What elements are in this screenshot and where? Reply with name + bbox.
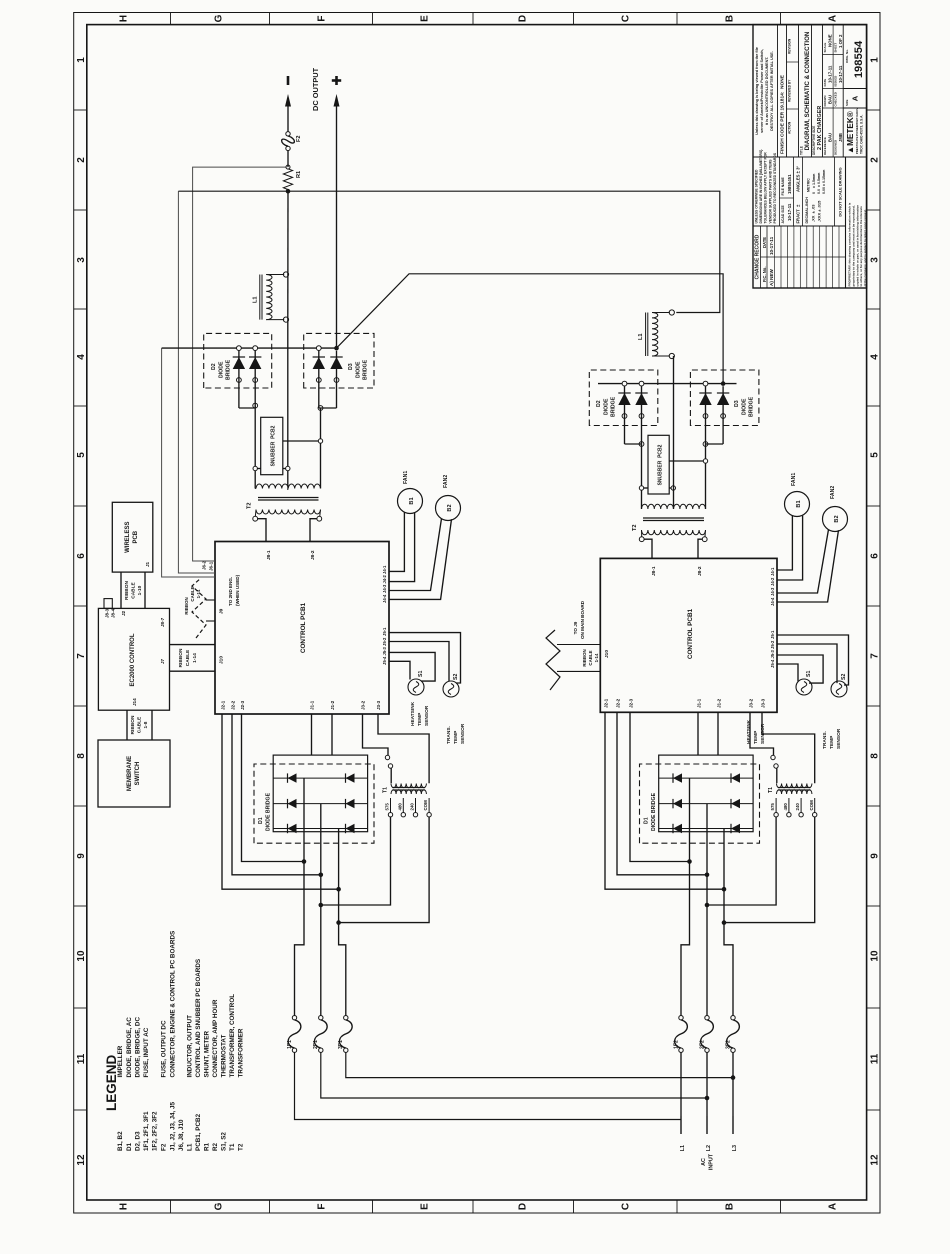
svg-text:E: E [420, 15, 431, 22]
zone number ticks (top and bottom margins) [74, 110, 880, 1110]
svg-text:BRIDGE: BRIDGE [611, 396, 617, 417]
svg-text:G: G [214, 14, 225, 22]
svg-text:TEMP: TEMP [453, 730, 459, 744]
svg-text:DIODE BRIDGE: DIODE BRIDGE [651, 792, 657, 831]
svg-text:NONE: NONE [828, 34, 833, 47]
svg-text:J3-2: J3-2 [361, 700, 366, 710]
svg-text:TRANS.: TRANS. [446, 726, 452, 744]
svg-text:RIBBON: RIBBON [130, 715, 136, 734]
D2 diode leg 1 [233, 346, 245, 408]
svg-text:3F1: 3F1 [338, 1040, 344, 1049]
svg-text:11: 11 [870, 1053, 881, 1064]
svg-text:S1: S1 [418, 671, 424, 677]
svg-text:DESIGNED: DESIGNED [834, 140, 838, 155]
wireless PCB box [112, 502, 153, 572]
svg-text:480: 480 [397, 803, 402, 811]
svg-text:10-17-11: 10-17-11 [828, 65, 833, 83]
fuse 3F1 (input AC) [338, 1016, 352, 1053]
svg-text:of the company, and is subject: of the company, and is subject to return… [863, 209, 867, 287]
fan B1 lower (impeller) [785, 473, 810, 517]
ribbon cable to 2nd engine (squiggle at J9) [184, 578, 215, 638]
svg-text:FINISH CODE PER 19.1814: NONE: FINISH CODE PER 19.1814: NONE [780, 74, 786, 154]
wire: lower J4 pins to fan B1 [777, 515, 803, 580]
svg-text:DECIMAL-INCH: DECIMAL-INCH [805, 197, 809, 224]
svg-text:SHEET: SHEET [834, 43, 838, 53]
svg-text:4: 4 [76, 354, 87, 360]
control PCB1 board (lower) [600, 558, 777, 712]
svg-text:Unless this drawing is being v: Unless this drawing is being viewed from… [755, 47, 759, 135]
svg-text:1-14: 1-14 [192, 653, 198, 663]
snubber pin to center tap [283, 466, 290, 470]
svg-text:J6, J8, J10: J6, J8, J10 [178, 1119, 185, 1151]
svg-text:10: 10 [76, 950, 87, 962]
node: L2 feed junction [705, 1096, 710, 1101]
svg-text:DESCRIPTIVE SIZE: DESCRIPTIVE SIZE [812, 126, 816, 155]
wire: J2-1 to phase 3 riser [222, 714, 339, 889]
fan B1 (impeller) [398, 471, 423, 514]
wire: lower J2-3 to phase 1 riser [630, 712, 690, 861]
svg-text:CONNECTOR, ENGINE & CONTROL PC: CONNECTOR, ENGINE & CONTROL PC BOARDS [170, 931, 177, 1078]
svg-text:F2: F2 [161, 1143, 168, 1151]
transformer T2 (upper) [247, 484, 322, 521]
svg-text:D1: D1 [644, 817, 650, 824]
svg-text:575: 575 [385, 803, 390, 811]
wire: + sense line from D2/D3 bus to J6 [162, 348, 215, 577]
svg-text:REFERENCE: REFERENCE [823, 137, 827, 155]
svg-text:RIBBON: RIBBON [184, 597, 189, 614]
connector R2 lower (amp hour) near T1 [750, 712, 778, 783]
svg-text:10-17-11: 10-17-11 [769, 236, 774, 255]
svg-text:A: A [851, 95, 860, 101]
svg-text:J8-2: J8-2 [310, 550, 316, 560]
svg-text:PRESTOLITE POWER/SWITCH DIV.: PRESTOLITE POWER/SWITCH DIV. [855, 107, 859, 154]
svg-text:5: 5 [870, 452, 881, 458]
svg-text:DIMENSIONS ARE IN INCHES [MILL: DIMENSIONS ARE IN INCHES [MILLIMETERS]. [759, 149, 763, 224]
svg-text:R2: R2 [212, 1142, 219, 1151]
wire: phase 3 riser to T1 tap COM [339, 817, 430, 923]
svg-text:DESTROY ALL COPIES AFTER INITI: DESTROY ALL COPIES AFTER INITIAL USE. [770, 51, 774, 131]
svg-text:4: 4 [870, 354, 881, 360]
svg-text:J4-1: J4-1 [770, 567, 775, 576]
fuse 3F2 (input AC) [726, 1016, 740, 1053]
svg-text:L2: L2 [706, 1145, 712, 1151]
svg-text:CHANGE RECORD: CHANGE RECORD [755, 234, 761, 279]
svg-text:DRAWN: DRAWN [823, 96, 827, 107]
wire: D2 legs join to T2 secondary top [239, 407, 255, 409]
wire: L2 row to fuse 2F2 [706, 1052, 708, 1058]
wire: lower J2-1 to phase 3 riser [605, 712, 724, 889]
svg-text:J1-2: J1-2 [330, 700, 335, 710]
title block: size cell [843, 89, 866, 109]
wire: J3-3 to T1 bottom [378, 714, 429, 783]
wire: J5 pins to S2 [389, 633, 461, 683]
wire: L3 row to fuse 3F2 [732, 1052, 734, 1058]
wire: T2 primary to PCB1 J8-1 [258, 519, 266, 542]
title block outline [753, 25, 867, 288]
wire: shunt sense J6-2 to R1 right [193, 167, 286, 561]
title block: change record table [753, 157, 846, 288]
svg-text:3: 3 [870, 257, 881, 263]
wire: lower T2 secondary top to D2 legs [639, 442, 648, 509]
svg-text:DATE: DATE [823, 79, 827, 87]
svg-text:8: 8 [870, 753, 881, 759]
svg-text:0.00 ± 0.15mm: 0.00 ± 0.15mm [822, 170, 826, 194]
svg-text:DATE: DATE [762, 237, 767, 248]
diode bridge D3 (upper, dashed box) [304, 333, 374, 388]
svg-text:S2: S2 [841, 674, 847, 680]
svg-text:240: 240 [410, 803, 415, 811]
svg-text:FUSE, OUTPUT DC: FUSE, OUTPUT DC [161, 1020, 168, 1077]
svg-text:BRIDGE: BRIDGE [363, 359, 369, 380]
svg-text:server of Ametek/Prestolite Po: server of Ametek/Prestolite Power and Sw… [760, 49, 764, 133]
wire: D3 legs join to T2 secondary bottom [319, 407, 337, 409]
lower snubber pin to center tap [669, 486, 675, 490]
D1 phase legs and diodes [273, 773, 367, 833]
svg-text:SENSOR: SENSOR [460, 723, 466, 744]
svg-text:CHECKED: CHECKED [834, 92, 838, 106]
svg-text:J4-1: J4-1 [382, 565, 387, 574]
svg-text:E: E [420, 1203, 431, 1210]
svg-text:J8-2: J8-2 [697, 566, 703, 576]
svg-text:J2-2: J2-2 [616, 698, 621, 708]
svg-text:1-14: 1-14 [594, 653, 599, 662]
svg-text:UNLESS OTHERWISE SPECIFIED: UNLESS OTHERWISE SPECIFIED [755, 169, 759, 224]
ribbon cable 1-8 (membrane to EC2000) [127, 710, 152, 740]
node: lower phase1/J2-3 junction [687, 859, 692, 864]
svg-text:it is an UNCONTROLLED DOCUMENT: it is an UNCONTROLLED DOCUMENT. [765, 57, 769, 126]
title block: drawing number 198554 [845, 40, 865, 78]
svg-text:12: 12 [76, 1154, 87, 1166]
svg-text:FAN2: FAN2 [830, 486, 836, 499]
svg-text:FILE NAME: FILE NAME [781, 176, 785, 195]
svg-text:BAU: BAU [828, 133, 833, 142]
svg-text:19855451: 19855451 [787, 174, 792, 194]
wire: lower phase 3 from fuse 3F2 to D1 [724, 829, 733, 1016]
svg-text:.XX ± .03: .XX ± .03 [811, 204, 816, 222]
svg-text:ACAD SIZE: ACAD SIZE [781, 204, 785, 223]
svg-text:J10: J10 [604, 650, 610, 658]
wire: lower D2 legs join [625, 443, 642, 445]
svg-text:TRANS.: TRANS. [822, 731, 828, 749]
svg-text:F: F [317, 15, 328, 21]
svg-text:D1: D1 [126, 1142, 133, 1151]
svg-text:FAN2: FAN2 [443, 475, 449, 488]
svg-text:S1: S1 [806, 671, 812, 677]
wire: J5 pins to S1 [389, 652, 435, 681]
svg-text:C: C [621, 15, 632, 22]
svg-text:J8-7: J8-7 [160, 617, 165, 627]
svg-text:J5-1: J5-1 [382, 627, 387, 636]
wire: AC feed L2 to fuse 2F1 [321, 1052, 707, 1098]
wire: T2 center tap to output [287, 486, 289, 490]
wire: + bus diagonal to lower circuit [337, 274, 724, 383]
svg-text:J3-3: J3-3 [761, 698, 766, 708]
svg-text:D1: D1 [258, 817, 264, 824]
svg-text:D2: D2 [596, 400, 602, 407]
wire: lower phase 1 from fuse 1F2 to D1 [681, 778, 690, 1015]
control PCB1 board (upper) [202, 542, 390, 715]
svg-text:AC: AC [701, 1158, 707, 1166]
wire: AC feed L1 to fuse 1F1 [295, 1052, 682, 1119]
lower D2 diode leg 2 [635, 381, 647, 444]
diode bridge D3 (lower, dashed box) [690, 370, 759, 426]
svg-text:9: 9 [76, 853, 87, 859]
svg-text:1F1, 2F1, 3F1: 1F1, 2F1, 3F1 [143, 1111, 150, 1151]
diode bridge D1 (lower, dashed box) [640, 764, 760, 843]
svg-text:DIODE: DIODE [219, 361, 225, 378]
svg-text:SENSOR: SENSOR [836, 728, 842, 749]
svg-text:3F2: 3F2 [726, 1040, 732, 1049]
svg-text:6: 6 [870, 553, 881, 559]
svg-text:J8-1: J8-1 [651, 566, 657, 576]
D2 diode leg 2 [249, 346, 261, 408]
svg-text:8: 8 [76, 753, 87, 759]
svg-text:A: A [828, 1203, 839, 1210]
svg-text:J10: J10 [219, 656, 225, 664]
svg-text:D: D [518, 1203, 529, 1210]
wire: phase 2 riser to T1 tap 575 [321, 817, 391, 905]
svg-text:TRANSFORMER, CONTROL: TRANSFORMER, CONTROL [229, 994, 236, 1078]
svg-text:CONNECTOR, AMP HOUR: CONNECTOR, AMP HOUR [212, 999, 219, 1077]
svg-text:10-17-11: 10-17-11 [787, 203, 792, 221]
svg-text:J8-3: J8-3 [105, 608, 110, 618]
diode bridge D1 (upper, dashed box) [254, 764, 374, 843]
svg-text:TROY, OHIO 45373, U.S.A.: TROY, OHIO 45373, U.S.A. [860, 115, 864, 154]
svg-text:RIBBON: RIBBON [124, 581, 130, 600]
svg-text:J5-1: J5-1 [770, 630, 775, 639]
D3 diode leg 1 [313, 346, 325, 408]
svg-text:CONTROL AND SNUBBER PC BOARDS: CONTROL AND SNUBBER PC BOARDS [195, 959, 202, 1078]
label: AC INPUT [701, 1153, 715, 1170]
svg-text:J1-1: J1-1 [697, 698, 702, 708]
svg-text:J1: J1 [145, 561, 150, 567]
wire: L1 row to fuse 1F2 [680, 1052, 682, 1058]
label: lower trans temp sensor [822, 728, 842, 749]
svg-text:1: 1 [76, 57, 87, 63]
svg-text:5: 5 [76, 452, 87, 458]
node: phase1/J2-3 junction [302, 859, 307, 864]
diode bridge D2 (upper, dashed box) [204, 333, 272, 388]
wire: J1-1 to D1 [311, 714, 313, 755]
svg-text:J5-2: J5-2 [770, 640, 775, 649]
svg-text:SNUBBER PCB2: SNUBBER PCB2 [271, 425, 277, 466]
ribbon cable 1-14 (EC2000 J7 to PCB1 J10) [170, 645, 216, 672]
wire: lower J5 pins to S1 [777, 655, 823, 683]
snubber PCB2 board (upper) [261, 417, 283, 474]
svg-text:TEMP: TEMP [753, 730, 759, 744]
svg-text:SCALE: SCALE [823, 43, 827, 53]
svg-text:L1: L1 [186, 1143, 193, 1151]
wire: phase 1 from fuse 1F1 to D1 [295, 778, 305, 1015]
svg-text:J2: J2 [121, 610, 126, 616]
svg-text:F2: F2 [296, 135, 302, 142]
svg-text:COM: COM [809, 800, 814, 811]
svg-text:METRIC: METRIC [807, 178, 811, 192]
svg-text:D2: D2 [211, 363, 217, 370]
svg-text:CABLE: CABLE [190, 586, 195, 601]
svg-text:L1: L1 [680, 1145, 686, 1151]
svg-text:DIODE BRIDGE: DIODE BRIDGE [266, 792, 272, 831]
diode bridge D1 lower inner outline [659, 755, 753, 832]
svg-text:L3: L3 [732, 1145, 738, 1151]
wire: J1-2 to D1 [331, 714, 333, 755]
node: + output junction on bus [334, 346, 339, 351]
svg-text:SHUNT, METER: SHUNT, METER [204, 1031, 211, 1078]
node: phase3/T1 riser junction [336, 920, 341, 925]
wire: lower T2 primary to PCB1 J8-2 [698, 539, 702, 558]
lower D2 diode leg 1 [618, 381, 630, 444]
svg-text:J2-1: J2-1 [604, 698, 609, 708]
diode bridge D1 inner outline [273, 755, 367, 832]
svg-text:240: 240 [795, 803, 800, 811]
thermostat S2 (transformer temp sensor) [443, 674, 459, 697]
wire: R1 left to lower circuit L1 [178, 191, 719, 312]
svg-text:FUSE, INPUT AC: FUSE, INPUT AC [143, 1027, 150, 1077]
D3 diode leg 2 [330, 351, 342, 408]
svg-text:TO J9: TO J9 [573, 621, 578, 634]
svg-text:SNUBBER PCB2: SNUBBER PCB2 [658, 444, 664, 485]
node: lower phase2/T1 riser junction [705, 903, 710, 908]
membrane switch box [98, 740, 170, 807]
svg-text:ISSUED: ISSUED [834, 76, 838, 87]
svg-text:10-17-11: 10-17-11 [838, 65, 843, 83]
svg-text:TRANSFORMER: TRANSFORMER [237, 1028, 244, 1077]
svg-text:ANGLES ± 3°: ANGLES ± 3° [796, 166, 801, 192]
svg-text:J6-1: J6-1 [209, 561, 214, 571]
svg-text:D2, D3: D2, D3 [134, 1131, 141, 1151]
svg-text:11: 11 [76, 1053, 87, 1064]
svg-text:1F1: 1F1 [287, 1040, 293, 1049]
svg-text:J2-3: J2-3 [629, 698, 634, 708]
svg-text:B1: B1 [409, 497, 415, 504]
svg-text:B: B [725, 1203, 736, 1210]
svg-text:1F2: 1F2 [674, 1040, 680, 1049]
legend description column [117, 931, 244, 1078]
svg-text:CABLE: CABLE [588, 650, 593, 665]
wire: lower T2 center tap to L1 [673, 356, 675, 509]
node: phase3/J2-1 junction [336, 887, 341, 892]
svg-text:B2: B2 [447, 504, 453, 511]
thermostat S1 (heatsink temp sensor) [408, 671, 424, 695]
svg-text:J7: J7 [160, 658, 165, 664]
svg-text:J5-2: J5-2 [382, 637, 387, 646]
svg-text:198554: 198554 [853, 40, 865, 78]
svg-text:J5-3: J5-3 [382, 646, 387, 655]
wire: phase 3 from fuse 3F1 to D1 [339, 829, 346, 1016]
wire: lower J3-3 to T1 bottom [762, 712, 815, 783]
svg-text:SWITCH: SWITCH [135, 762, 141, 786]
fuse 2F2 (input AC) [700, 1016, 714, 1053]
legend designator column [117, 1101, 244, 1151]
svg-text:S2: S2 [453, 674, 459, 680]
wire: lower J5 pins to S2 [777, 635, 849, 685]
svg-text:1-14: 1-14 [196, 589, 201, 598]
wire: J2-2 to phase 2 riser [232, 714, 321, 875]
wire: lower T2 secondary bottom to D3 legs [669, 442, 708, 509]
svg-text:J4-3: J4-3 [382, 584, 387, 593]
wire: lower phase 2 from fuse 2F2 to D1 [706, 804, 708, 1016]
diode bridge D2 (lower, dashed box) [589, 370, 658, 426]
label: trans temp sensor [446, 723, 466, 744]
title block: drawing title [800, 25, 823, 157]
svg-text:TO 2ND ENG.: TO 2ND ENG. [228, 577, 233, 606]
resistor R1 (shunt) [283, 169, 302, 190]
svg-text:RIBBON: RIBBON [582, 649, 587, 666]
wire: lower J1-1 to D1 [697, 712, 699, 755]
lower D3 diode leg 2 [717, 386, 729, 444]
svg-text:DIODE: DIODE [356, 361, 362, 378]
label: heatsink temp sensor [410, 701, 430, 726]
title block: drawn/date grid [823, 25, 844, 157]
wire: J4 pins to fan B1 [389, 512, 415, 581]
transformer T1 (control, upper) [383, 784, 432, 817]
svg-text:HEATSINK: HEATSINK [746, 719, 752, 744]
svg-text:COM: COM [423, 800, 428, 811]
thermostat S2 lower [831, 674, 847, 697]
svg-text:1: 1 [870, 57, 881, 63]
svg-text:T2: T2 [237, 1143, 244, 1151]
node: L3 feed junction [731, 1075, 736, 1080]
wire: lower J2-2 to phase 2 riser [617, 712, 707, 875]
svg-text:S1, S2: S1, S2 [220, 1132, 227, 1151]
svg-text:DIAGRAM, SCHEMATIC & CONNECTIO: DIAGRAM, SCHEMATIC & CONNECTION [804, 31, 811, 150]
svg-text:ACTION: ACTION [788, 121, 792, 134]
svg-text:RIBBON: RIBBON [178, 648, 184, 667]
svg-text:DC OUTPUT: DC OUTPUT [311, 67, 320, 111]
svg-text:J2-3: J2-3 [240, 700, 245, 710]
svg-text:7: 7 [870, 653, 881, 659]
svg-text:J2-1: J2-1 [221, 700, 226, 710]
fuse F2 (output DC) [282, 132, 302, 151]
svg-text:J4-4: J4-4 [770, 597, 775, 606]
svg-text:10: 10 [870, 950, 881, 962]
AC input terminal L1 [680, 1058, 686, 1151]
svg-text:J8-4: J8-4 [111, 608, 116, 618]
svg-text:SIZE: SIZE [845, 100, 849, 106]
svg-text:DIODE, BRIDGE, AC: DIODE, BRIDGE, AC [126, 1017, 133, 1078]
wire: lower D3 legs join [706, 443, 724, 445]
svg-text:ON MAIN BOARD: ON MAIN BOARD [580, 600, 585, 639]
svg-text:CABLE: CABLE [131, 581, 137, 598]
label: lower heatsink temp sensor [746, 719, 766, 744]
svg-text:J5-4: J5-4 [770, 659, 775, 668]
svg-text:J1, J2, J3, J4, J5: J1, J2, J3, J4, J5 [170, 1101, 177, 1151]
svg-text:2F2: 2F2 [700, 1040, 706, 1049]
AC input terminal L3 [732, 1058, 738, 1151]
fuse 2F1 (input AC) [313, 1016, 327, 1053]
svg-text:BRIDGE: BRIDGE [749, 396, 755, 417]
svg-text:G: G [214, 1202, 225, 1210]
svg-text:REVIEWED BY: REVIEWED BY [788, 79, 792, 102]
svg-text:FAN1: FAN1 [791, 473, 797, 486]
svg-text:575: 575 [770, 803, 775, 811]
node: R1 left junction [286, 189, 291, 194]
svg-text:A) NEW: A) NEW [769, 268, 774, 286]
svg-text:PRODUCED TO RECOGNIZED STANDAR: PRODUCED TO RECOGNIZED STANDARDS [773, 152, 777, 223]
svg-text:T2: T2 [247, 502, 253, 509]
node: lower phase3/J2-1 junction [722, 887, 727, 892]
wire: negative output arrow [285, 76, 291, 132]
node: lower phase2/J2-2 junction [705, 873, 710, 878]
wire: lower phase 3 riser to T1 tap COM [724, 817, 815, 923]
svg-text:J1-2: J1-2 [717, 698, 722, 708]
svg-text:DIODE: DIODE [604, 398, 610, 415]
svg-text:DWG. No.: DWG. No. [845, 49, 849, 63]
title block: notice text [755, 47, 774, 135]
zone numbers 1-12 [76, 57, 881, 1166]
svg-text:TOLERANCES BELOW APPLY EXCEPT: TOLERANCES BELOW APPLY EXCEPT FOR [764, 152, 768, 224]
svg-text:2: 2 [76, 157, 87, 163]
